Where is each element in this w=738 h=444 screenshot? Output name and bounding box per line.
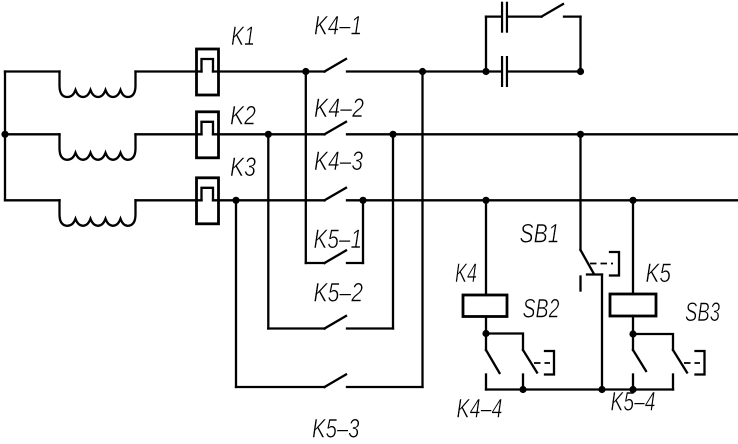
winding L2 [60, 134, 136, 160]
node: row3 / coil K5 feed [629, 197, 636, 204]
contact K5-4 blade (NO) [633, 350, 646, 371]
wire: K5-1 right vertical to row3 [362, 200, 364, 263]
svg-text:K3: K3 [230, 152, 256, 182]
svg-text:K5: K5 [646, 258, 672, 288]
contact K5-1 blade [325, 251, 347, 264]
wire: coil K5 feed vertical [632, 200, 634, 294]
node: rail / SB1 [598, 386, 605, 393]
svg-text:K5–3: K5–3 [312, 414, 360, 444]
node: row1 / capacitor branch right [577, 68, 584, 75]
node: row2 / SB1 feed [577, 131, 584, 138]
wire: SB1 feed vertical from row2 [579, 134, 581, 250]
wire: row 3 fuse to contact K4-3 [213, 199, 325, 201]
contact K4-1 blade [325, 59, 347, 72]
SB1 actuator head [610, 252, 619, 276]
node: rail / SB2 [519, 386, 526, 393]
fuse K2 [197, 112, 219, 158]
pushbutton SB3 blade (NO) [673, 350, 687, 373]
node: row3 / K5-1 right branch [359, 197, 366, 204]
SB2 actuator dashed link [534, 362, 550, 364]
svg-text:K4–2: K4–2 [314, 93, 364, 123]
wire: row 1 capacitor to right node [508, 70, 581, 72]
node: row3 / K5-3 left branch [232, 197, 239, 204]
wire: SB1 to bottom rail [601, 275, 603, 390]
wire: row 2 right segment to edge [347, 133, 738, 135]
svg-text:K4: K4 [455, 258, 477, 288]
wire: K5-1 bottom right [347, 262, 363, 264]
wire: K4-4 lower stub [485, 375, 487, 390]
wire: K5-2 bottom right [347, 327, 393, 329]
capacitor C1 (top branch) [502, 2, 507, 33]
wire: K5-4 lower stub [632, 375, 634, 390]
node: row2 / K5-2 right branch [389, 131, 396, 138]
wire: top branch right [564, 15, 581, 17]
wire: K5-1 left vertical from row1 [305, 72, 307, 264]
contact K4-4 blade (NO) [486, 350, 500, 373]
wire: jog to SB3 [633, 334, 673, 350]
capacitor C2 (row 1) [502, 56, 507, 87]
wire: K5-2 right vertical to row2 [392, 134, 394, 328]
wire: jog to SB2 [486, 334, 523, 351]
wire: K5-3 right vertical to row1 [421, 72, 423, 388]
wire: row 1 winding to fuse K1 [136, 70, 202, 72]
svg-text:SB3: SB3 [685, 297, 720, 327]
wire: SB3 lower stub [672, 375, 674, 390]
wire: capacitor branch right vertical [579, 17, 581, 72]
wire: SB1 lower contact tick [587, 273, 602, 275]
wire: row 2 winding to fuse K2 [136, 133, 202, 135]
node: row1 / K5-3 branch [419, 68, 426, 75]
wire: K5-4 upper terminal [632, 334, 634, 350]
wire: row 2 left segment [5, 133, 60, 135]
wire: row 3 winding to fuse K3 [136, 199, 202, 201]
winding L3 [60, 200, 136, 226]
wire: K4-4 upper terminal [485, 334, 487, 351]
SB2 actuator head [545, 351, 554, 375]
svg-text:K5–2: K5–2 [314, 277, 364, 307]
SB3 actuator dashed link [684, 362, 700, 364]
wire: K5-1 bottom left [306, 262, 325, 264]
wire: top branch middle [508, 15, 542, 17]
fuse K1 [197, 49, 219, 95]
svg-text:K5–1: K5–1 [314, 224, 363, 254]
wire: K5-3 left vertical from row3 [235, 200, 237, 387]
wire: K5-3 bottom left [236, 386, 325, 388]
coil K5 [610, 294, 656, 316]
wire: top branch left [486, 15, 501, 17]
contact K4-2 blade [325, 122, 347, 135]
wire: SB2 lower stub [522, 375, 524, 390]
coil K4 [463, 295, 507, 317]
contact K5-2 blade [325, 316, 347, 329]
winding L1 [60, 72, 136, 98]
wire: K5-2 left vertical from row2 [267, 134, 269, 328]
wire: SB1 lower terminal stub [579, 277, 581, 291]
fuse K3 [197, 178, 219, 224]
wire: coil K5 bottom to node [632, 316, 634, 334]
svg-text:K4–3: K4–3 [314, 146, 363, 176]
svg-text:K4–1: K4–1 [314, 11, 362, 41]
wire: row 1 right segment to capacitor [347, 70, 501, 72]
node: row1 / capacitor branch left [482, 68, 489, 75]
node: row3 / coil K4 feed [482, 197, 489, 204]
node: bus tap to row 2 [1, 131, 8, 138]
wire: K5-3 bottom right [347, 386, 423, 388]
contact K5-3 blade [325, 375, 347, 388]
wire: K5-2 bottom left [268, 327, 324, 329]
wire: capacitor branch left vertical [485, 17, 487, 72]
svg-text:K2: K2 [230, 101, 256, 131]
SB1 actuator dashed link [590, 263, 613, 265]
wire: row 3 left segment [5, 199, 60, 201]
node: under coil K5 [629, 330, 636, 337]
svg-text:SB1: SB1 [520, 219, 560, 249]
contact blade (top branch switch) [542, 4, 564, 17]
pushbutton SB1 blade (NC) [581, 250, 595, 274]
svg-text:K4–4: K4–4 [457, 394, 503, 424]
pushbutton SB2 blade (NO) [523, 350, 537, 373]
SB3 actuator head [696, 351, 705, 375]
wire: row 1 fuse to contact K4-1 [213, 70, 325, 72]
node: row2 / K5-2 left branch [265, 131, 272, 138]
wire: coil K4 bottom to node [485, 317, 487, 334]
wire: row 3 right segment to edge [347, 199, 738, 201]
wire: left vertical bus [4, 72, 6, 201]
contact K4-3 blade [325, 188, 347, 201]
node: under coil K4 [482, 330, 489, 337]
node: row1 / K5-1 branch [302, 68, 309, 75]
wire: row 2 fuse to contact K4-2 [213, 133, 325, 135]
node: rail / K5-4 [629, 386, 636, 393]
wire: coil K4 feed vertical [485, 200, 487, 295]
wire: bottom rail [486, 388, 673, 390]
wire: row 1 left segment [5, 70, 60, 72]
svg-text:SB2: SB2 [523, 294, 560, 324]
svg-text:K1: K1 [231, 21, 255, 51]
